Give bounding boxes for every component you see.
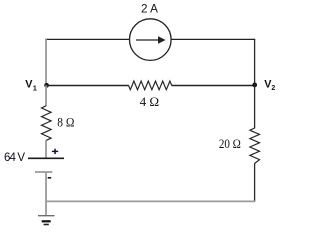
svg-text:20 Ω: 20 Ω: [219, 137, 241, 151]
svg-text:4 Ω: 4 Ω: [140, 95, 160, 109]
wire top right segment: [171, 38, 255, 40]
ground symbol: [38, 216, 55, 225]
svg-text:8 Ω: 8 Ω: [57, 115, 74, 129]
wire right vertical middle: [254, 85, 256, 128]
battery 64V positive plate: [28, 157, 64, 159]
wire left vertical above battery: [45, 140, 47, 157]
wire right vertical lower: [254, 163, 256, 202]
svg-text:64 V: 64 V: [4, 152, 25, 164]
node V1 junction dot: [44, 83, 49, 88]
wire bottom horizontal: [46, 200, 255, 202]
current source arrow: [136, 36, 166, 44]
wire right vertical upper: [254, 39, 256, 85]
wire middle right lead: [172, 85, 255, 87]
resistor R1 4 ohm zigzag: [129, 81, 172, 90]
label minus sign: [48, 177, 52, 179]
svg-text:2 A: 2 A: [141, 1, 158, 15]
node V2 junction dot: [252, 83, 257, 88]
resistor R3 20 ohm zigzag: [250, 128, 260, 164]
label plus sign: [52, 149, 58, 154]
resistor R2 8 ohm zigzag: [42, 106, 52, 141]
current source I1 circle: [130, 19, 172, 61]
battery negative plate: [35, 171, 52, 173]
wire middle left lead: [47, 85, 129, 87]
wire top left segment: [45, 38, 130, 40]
wire left vertical below V1: [45, 85, 47, 106]
wire battery to ground vertical: [45, 172, 47, 216]
wire left vertical upper: [45, 39, 47, 86]
